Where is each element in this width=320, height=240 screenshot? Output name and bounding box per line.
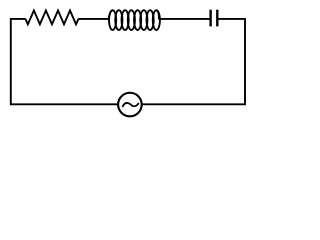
wire right side loop: capacitor to top-right corner, right vertical, bottom-right run to source (142, 19, 245, 104)
inductor (109, 10, 160, 30)
capacitor plate right (216, 10, 218, 27)
wire between inductor and capacitor (159, 18, 210, 20)
wire left side loop: top-left corner, left vertical, bottom-left run to source (11, 19, 118, 104)
AC source sine tilde (122, 103, 138, 107)
resistor (25, 11, 78, 25)
capacitor plate left (209, 10, 211, 27)
wire between resistor and inductor (78, 18, 110, 20)
AC source circle (118, 93, 142, 117)
